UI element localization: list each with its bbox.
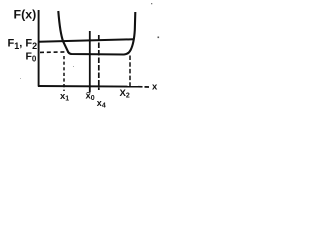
x-axis dashed right end — [138, 86, 149, 88]
x-axis — [38, 85, 138, 88]
svg-text:x: x — [152, 82, 158, 93]
background — [0, 0, 160, 120]
scan speck top right — [158, 37, 160, 39]
curve F(x) — [58, 11, 135, 55]
vertical line at x4 — [98, 35, 100, 90]
scan speck right — [151, 3, 152, 4]
dashed dropline at x1 — [63, 56, 65, 91]
F1,F2 level line — [39, 39, 133, 41]
y-axis — [38, 10, 40, 87]
svg-text:F(x): F(x) — [14, 8, 37, 22]
F0 dashed level line — [40, 51, 68, 54]
scan speck low left — [20, 78, 21, 79]
vertical dashed line at X2 — [129, 56, 131, 89]
scan speck mid — [73, 66, 74, 67]
vertical line at x0 — [89, 31, 91, 93]
